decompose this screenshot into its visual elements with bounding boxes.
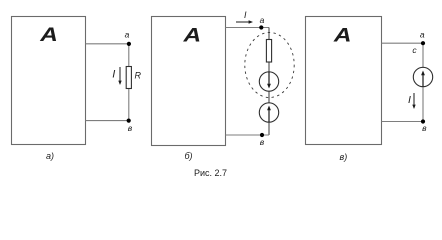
network box A (fig b) — [152, 17, 226, 146]
node a (fig b) — [259, 25, 263, 29]
svg-text:а): а) — [46, 151, 54, 161]
svg-text:Рис. 2.7: Рис. 2.7 — [194, 168, 227, 178]
current arrow I (fig a) — [118, 67, 121, 85]
svg-text:I: I — [408, 94, 411, 106]
node a (fig v) — [421, 41, 425, 45]
svg-text:а: а — [420, 30, 425, 40]
svg-text:A: A — [39, 23, 58, 45]
current source J (fig v, arrow up) — [413, 67, 432, 86]
wire branch vertical (fig a) — [128, 44, 130, 121]
wire top (box to corner, fig b) — [226, 27, 270, 29]
svg-text:A: A — [333, 24, 352, 46]
network box A (fig v) — [306, 17, 382, 145]
resistor R (fig a) — [126, 67, 131, 89]
svg-text:с: с — [412, 45, 417, 55]
current arrow I (fig v) — [412, 93, 415, 109]
wire top (box to node a, fig a) — [86, 43, 129, 45]
wire bottom (box to node v, fig a) — [86, 120, 129, 122]
svg-text:а: а — [260, 15, 265, 25]
svg-text:R: R — [134, 71, 141, 81]
wire top (box to node a, fig v) — [382, 42, 424, 44]
node a (fig a) — [127, 42, 131, 46]
dashed equivalent-source ellipse (fig b) — [245, 33, 294, 98]
svg-text:б): б) — [184, 151, 192, 161]
svg-text:A: A — [182, 24, 201, 46]
svg-text:в): в) — [340, 152, 348, 162]
label A (fig a) — [39, 23, 58, 45]
current source J (fig b, lower circle, arrow up) — [259, 103, 278, 122]
wire bottom (box to node v, fig v) — [382, 121, 424, 123]
svg-text:в: в — [260, 137, 265, 147]
EMF source E (fig b, upper circle, arrow down) — [259, 72, 278, 91]
node v (fig v) — [421, 119, 425, 123]
network box A (fig a) — [12, 17, 86, 145]
svg-text:в: в — [422, 123, 427, 133]
node v (fig a) — [127, 119, 131, 123]
wire bottom (box to corner, fig b) — [226, 134, 270, 136]
svg-text:а: а — [125, 30, 130, 40]
svg-text:в: в — [128, 123, 133, 133]
label A (fig v) — [333, 24, 352, 46]
node v (fig b) — [260, 133, 264, 137]
current arrow I (fig b, top wire) — [236, 20, 253, 23]
label A (fig b) — [182, 24, 201, 46]
resistor (fig b) — [266, 40, 271, 63]
svg-text:I: I — [112, 69, 115, 81]
svg-text:I: I — [244, 10, 247, 20]
wire branch vertical (fig b) — [268, 28, 270, 136]
wire branch vertical (fig v) — [422, 43, 424, 121]
